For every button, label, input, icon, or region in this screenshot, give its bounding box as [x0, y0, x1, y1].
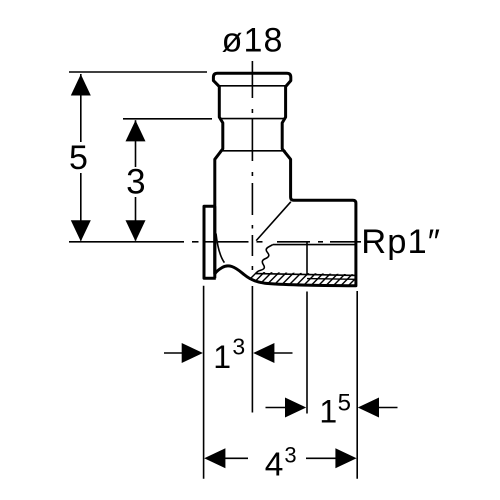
inner cone diagonal [256, 202, 291, 241]
thread end line [306, 242, 308, 275]
dimension 1.3 [164, 352, 183, 354]
svg-text:4: 4 [265, 447, 284, 484]
svg-text:Rp1″: Rp1″ [361, 223, 440, 261]
svg-text:1: 1 [213, 339, 231, 375]
svg-text:3: 3 [232, 333, 245, 359]
svg-text:1: 1 [319, 393, 337, 429]
wall flange [204, 206, 216, 278]
svg-text:3: 3 [126, 163, 145, 202]
fitting outer contour [213, 73, 356, 285]
break squiggle line [256, 245, 273, 274]
thread hatching [238, 267, 375, 291]
thread root mid line [307, 278, 356, 281]
extension line left (flange face) [203, 286, 205, 479]
vertical centerline [251, 61, 253, 270]
extension line right (outlet face) [356, 291, 358, 479]
extension line top (5) [69, 71, 207, 73]
extension line thread start [306, 292, 308, 414]
thread bore line [273, 244, 355, 246]
inner bore arc [216, 234, 224, 263]
extension line mid (3) [123, 118, 212, 120]
body flare line [220, 150, 286, 152]
svg-text:3: 3 [284, 442, 296, 467]
extension line center axis [251, 286, 253, 413]
socket insertion-depth step line [220, 118, 285, 120]
svg-text:5: 5 [338, 390, 351, 417]
svg-text:5: 5 [69, 139, 88, 177]
dimension 3 [135, 120, 137, 240]
dimension 5 [80, 74, 82, 241]
horizontal centerline [69, 241, 361, 243]
svg-text:ø18: ø18 [222, 22, 283, 60]
thread hatch top line [256, 274, 356, 276]
dimension 4.3 [204, 448, 225, 468]
dimension 1.5 [266, 407, 286, 409]
socket rim bottom line [219, 85, 286, 87]
